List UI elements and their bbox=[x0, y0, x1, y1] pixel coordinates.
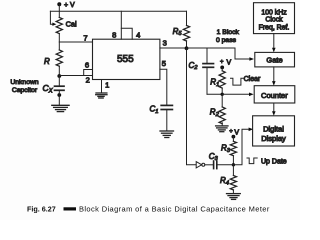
svg-text:+: + bbox=[229, 129, 233, 135]
arrowhead into Digital Display bbox=[249, 128, 254, 132]
wire counter to display bbox=[273, 103, 275, 113]
capacitor C2 bbox=[189, 48, 214, 94]
svg-text:V: V bbox=[234, 130, 239, 137]
svg-text:Cal: Cal bbox=[66, 19, 77, 28]
svg-text:100 kHz: 100 kHz bbox=[261, 10, 287, 17]
arrowhead into Counter top bbox=[272, 81, 276, 86]
svg-text:Clear: Clear bbox=[244, 76, 261, 83]
wiper arrowhead bbox=[52, 23, 56, 26]
svg-text:7: 7 bbox=[83, 33, 87, 42]
svg-text:Up Date: Up Date bbox=[261, 159, 287, 166]
svg-text:Fig. 6.27: Fig. 6.27 bbox=[27, 205, 56, 214]
svg-text:Block Diagram of a Basic Digit: Block Diagram of a Basic Digital Capacit… bbox=[79, 205, 270, 214]
wire C2 bottom to R1 junction bbox=[207, 93, 222, 95]
wire junction to gate bend bbox=[187, 48, 251, 59]
wire pin 7 bbox=[59, 41, 92, 43]
wire +V dot down to Cal pot top bbox=[58, 4, 60, 17]
svg-text:3: 3 bbox=[163, 39, 167, 48]
svg-text:1 Block: 1 Block bbox=[217, 29, 240, 36]
capacitor C3 bbox=[209, 152, 219, 169]
resistor R1 bbox=[210, 67, 225, 94]
wire C3 to R3/R4 junction and up to display bbox=[217, 129, 251, 165]
wire pot bottom to R top bbox=[58, 34, 60, 50]
svg-text:R: R bbox=[44, 57, 50, 66]
arrowhead into Display top bbox=[272, 111, 276, 116]
svg-text:Display: Display bbox=[261, 134, 286, 143]
ground below R4 bbox=[227, 194, 241, 200]
label 1 Block / 0 pass bbox=[216, 29, 240, 44]
wire pins 2 and 6 bbox=[59, 75, 92, 77]
wire C1 to ground bbox=[166, 110, 168, 132]
wire to Counter bbox=[222, 93, 250, 95]
svg-text:Freq, Ref.: Freq, Ref. bbox=[259, 24, 290, 31]
svg-text:Digital: Digital bbox=[263, 125, 284, 134]
arrowhead into Gate top bbox=[272, 48, 276, 53]
capacitor C1 bbox=[150, 105, 173, 115]
pulse symbol Up Date bbox=[247, 158, 257, 164]
block Counter box bbox=[254, 86, 295, 103]
wire junction down to buffer row bbox=[187, 48, 196, 165]
node R/Cx junction bbox=[57, 74, 61, 78]
wire R bottom to junction bbox=[58, 66, 60, 76]
node R3/R4 junction bbox=[232, 163, 235, 166]
svg-text:6: 6 bbox=[85, 60, 89, 69]
svg-text:5: 5 bbox=[162, 59, 166, 68]
wire pin 3 bbox=[160, 47, 187, 49]
svg-text:4: 4 bbox=[136, 31, 140, 40]
ground below C1 bbox=[160, 131, 174, 138]
capacitor CX bbox=[43, 76, 65, 94]
node +V above R1 bbox=[220, 59, 232, 69]
wire gate to counter bbox=[273, 67, 275, 83]
label Unknown Capcitor bbox=[10, 79, 39, 94]
svg-text:Capcitor: Capcitor bbox=[12, 87, 38, 94]
resistor R2 bbox=[210, 94, 226, 126]
ground below CX bbox=[52, 105, 69, 111]
wire pin 1 to ground bbox=[101, 80, 103, 93]
svg-text:Gate: Gate bbox=[266, 56, 282, 65]
node +V above R3 bbox=[229, 129, 239, 139]
buffer D1 bbox=[196, 162, 205, 168]
svg-text:1: 1 bbox=[105, 81, 109, 90]
arrowhead into Counter bbox=[249, 93, 254, 97]
resistor R4 bbox=[220, 165, 237, 194]
wire clock to gate bbox=[273, 34, 275, 50]
wire buffer to C3 bbox=[205, 164, 214, 166]
resistor R bbox=[44, 50, 62, 66]
node +V top-left bbox=[57, 2, 75, 9]
svg-text:8: 8 bbox=[112, 30, 116, 39]
wire pot wiper loop bbox=[50, 11, 53, 24]
svg-text:+ V: + V bbox=[64, 2, 75, 9]
wire pin 5 bbox=[160, 69, 167, 105]
resistor R5 bbox=[173, 11, 190, 48]
pulse symbol Clear bbox=[231, 78, 244, 85]
svg-text:Counter: Counter bbox=[261, 91, 288, 100]
wire +V rail to pin 8 bbox=[120, 11, 122, 39]
wire +V supply rail bbox=[50, 10, 186, 12]
node pin3/R5 junction bbox=[185, 46, 189, 50]
svg-text:555: 555 bbox=[117, 54, 134, 65]
op-amp timer U1 555 box bbox=[93, 39, 160, 79]
node below CX bbox=[57, 93, 61, 97]
wire pin-6 step bbox=[84, 70, 93, 76]
block Gate box bbox=[255, 52, 295, 67]
svg-text:0 pass: 0 pass bbox=[216, 37, 237, 44]
ground at pin 1 bbox=[96, 93, 107, 98]
block Digital Display box bbox=[253, 116, 295, 146]
block 100 kHz Clock box bbox=[254, 3, 295, 34]
wire pin 8 to pin 4 loop bbox=[121, 28, 132, 39]
svg-text:Clock: Clock bbox=[265, 17, 283, 24]
node R1/R2/C2 junction bbox=[221, 93, 224, 96]
arrowhead into Gate bbox=[249, 57, 254, 61]
svg-text:2: 2 bbox=[86, 75, 90, 84]
svg-text:+: + bbox=[220, 60, 224, 66]
resistor R3 bbox=[221, 137, 237, 165]
svg-text:V: V bbox=[227, 59, 232, 66]
potentiometer Cal bbox=[56, 17, 77, 33]
wire CX to ground bbox=[58, 90, 60, 105]
ground below R2 bbox=[216, 126, 228, 132]
svg-text:Unknown: Unknown bbox=[10, 79, 39, 86]
caption Fig. 6.27 bbox=[27, 205, 270, 214]
